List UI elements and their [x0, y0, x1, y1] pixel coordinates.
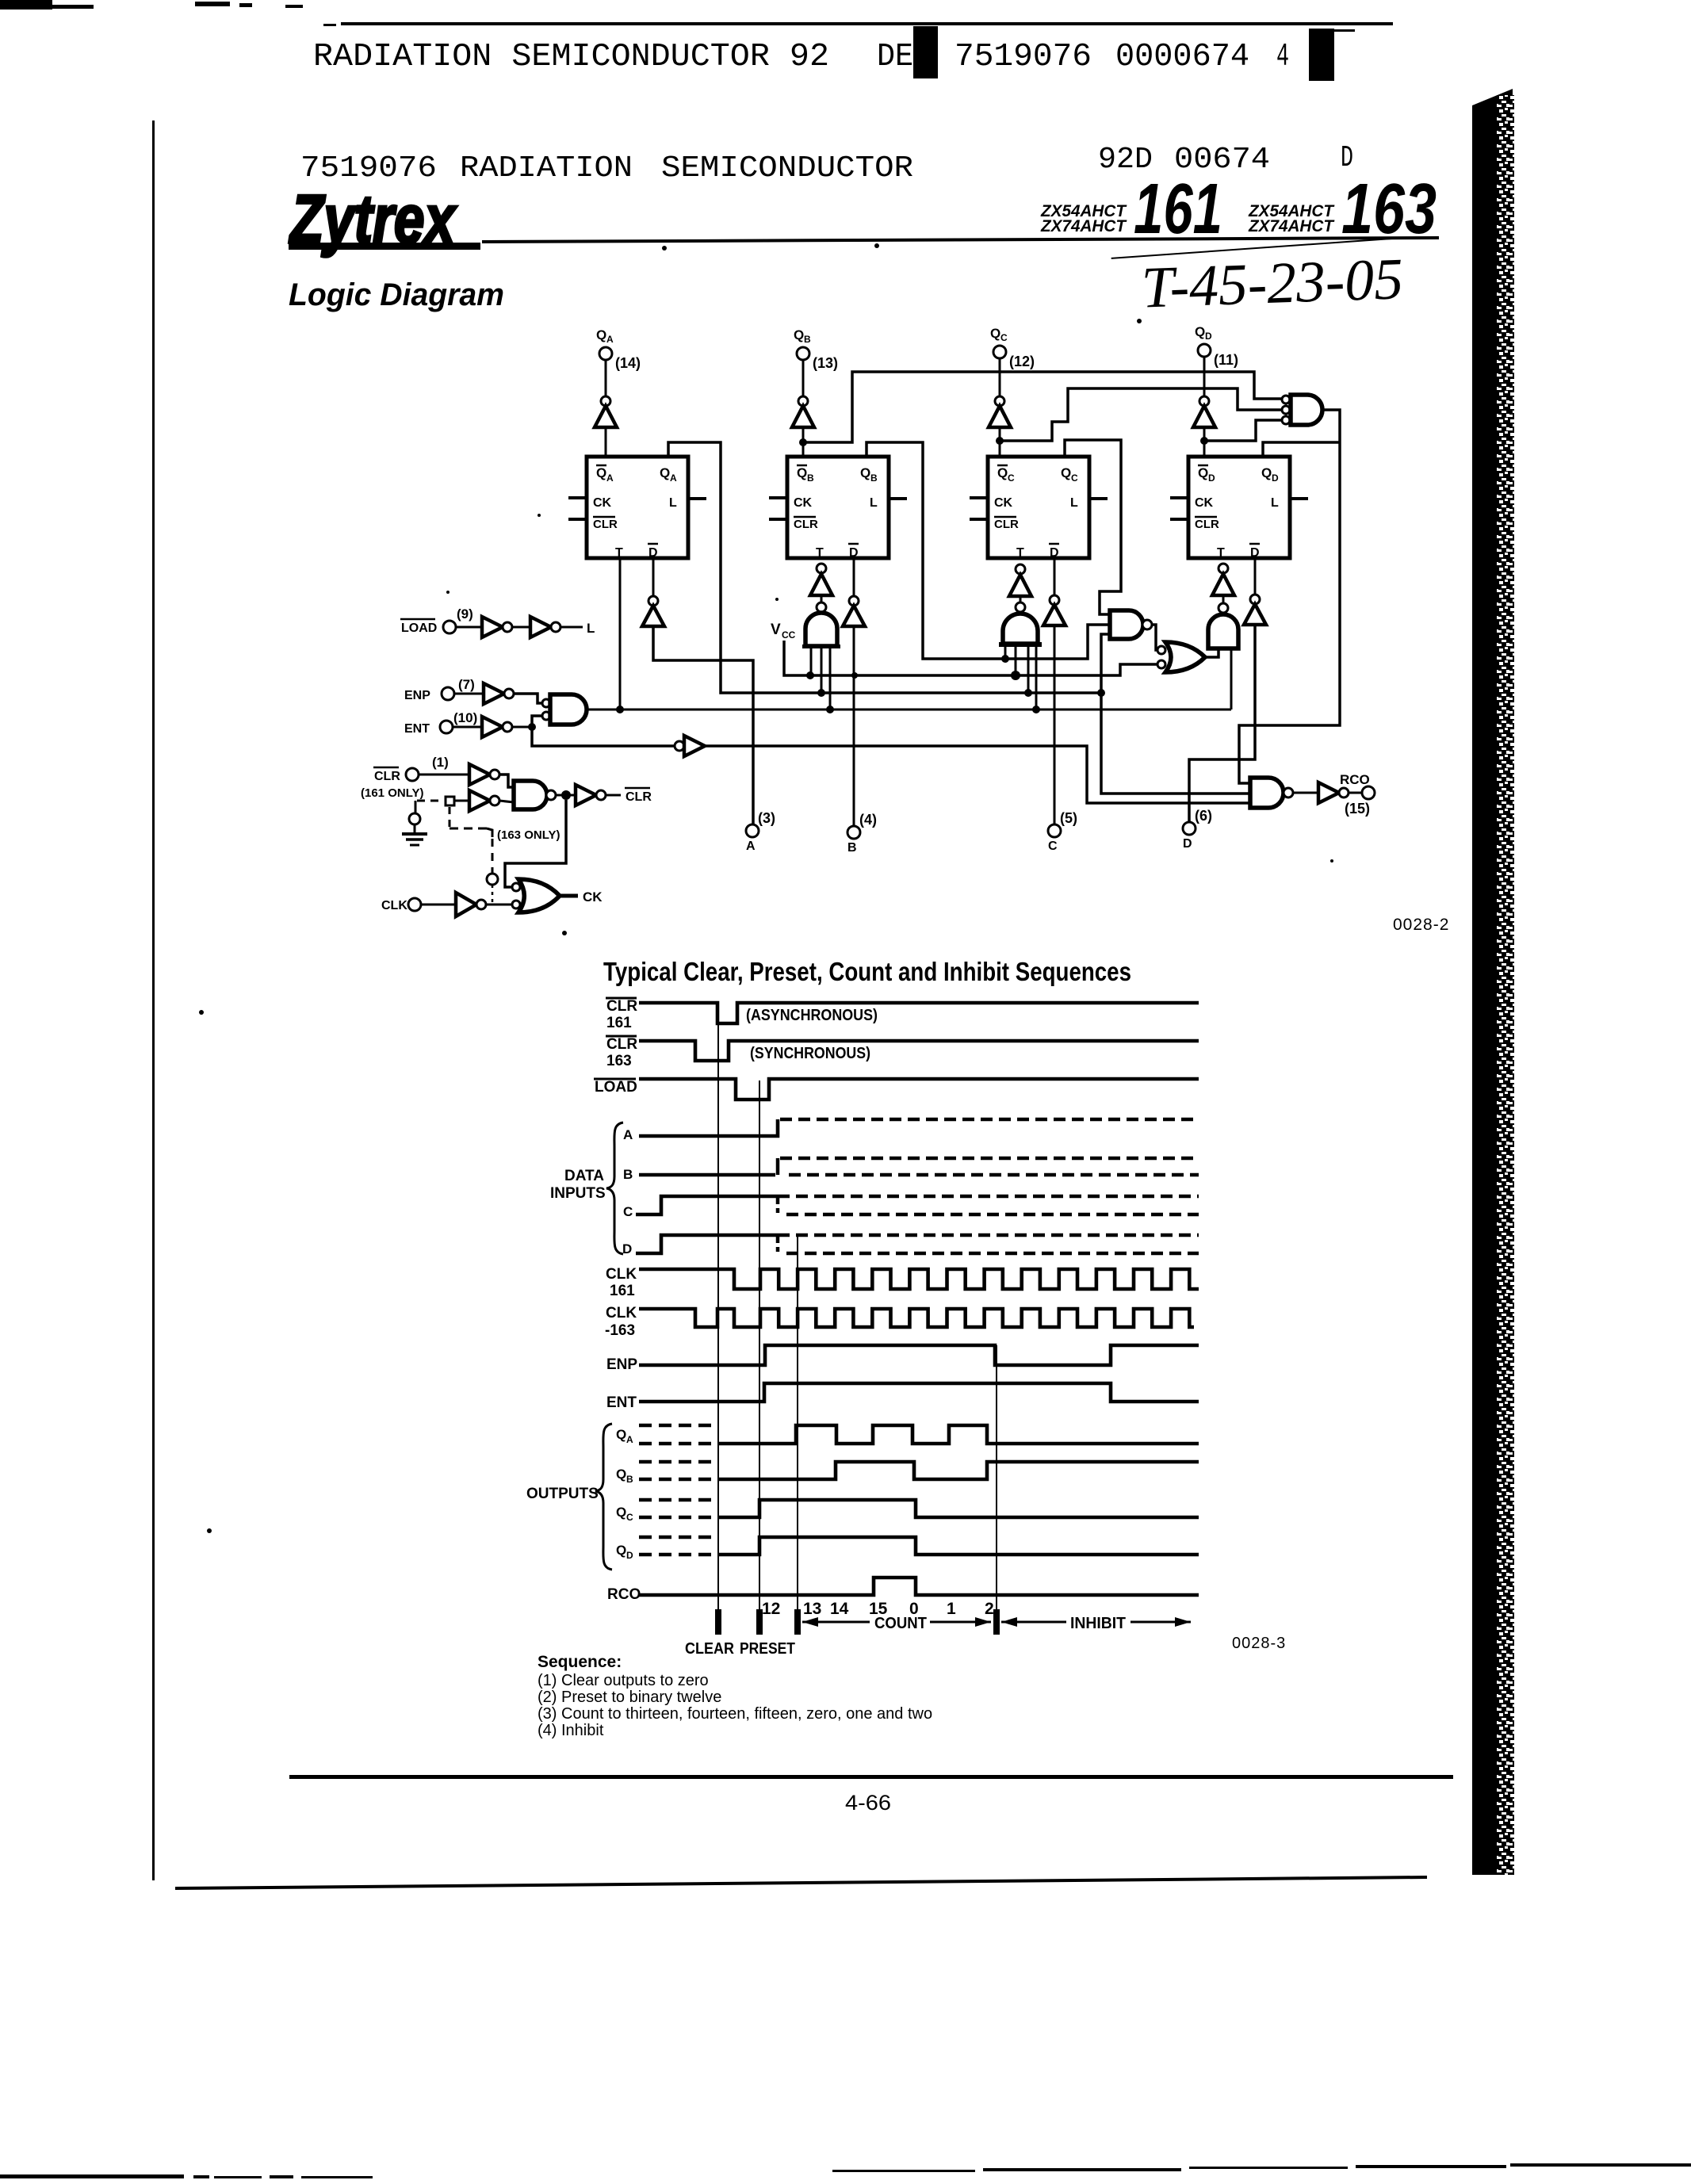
svg-text:T: T [1016, 546, 1024, 560]
AND gate G-C [999, 614, 1042, 710]
guide line clear [717, 1003, 719, 1635]
waveform data B [639, 1158, 1199, 1175]
label QA [616, 1427, 633, 1445]
svg-text:B: B [870, 472, 878, 484]
svg-text:T-45-23-05: T-45-23-05 [1141, 247, 1405, 320]
svg-text:14: 14 [830, 1600, 849, 1618]
flip-flop FFA [587, 457, 688, 560]
svg-text:(SYNCHRONOUS): (SYNCHRONOUS) [750, 1045, 870, 1062]
net label L [560, 621, 595, 636]
svg-text:Logic Diagram: Logic Diagram [289, 277, 504, 312]
brace OUTPUTS [526, 1424, 612, 1570]
svg-text:(161 ONLY): (161 ONLY) [361, 786, 423, 800]
svg-text:RADIATION SEMICONDUCTOR 92: RADIATION SEMICONDUCTOR 92 [313, 39, 829, 75]
svg-text:DATA: DATA [564, 1168, 604, 1184]
svg-text:(14): (14) [615, 355, 641, 371]
svg-text:T: T [615, 546, 623, 560]
svg-text:A: A [606, 472, 614, 484]
waveform ENT [639, 1383, 1199, 1402]
svg-text:C: C [626, 1512, 633, 1523]
svg-text:OUTPUTS: OUTPUTS [526, 1486, 599, 1502]
svg-text:D: D [1183, 837, 1192, 851]
wire AND3 output to RCO NAND [1239, 410, 1340, 783]
svg-text:L: L [587, 621, 595, 636]
handwritten T-45-23-05 [1111, 238, 1404, 322]
svg-text:(1) Clear outputs to zero: (1) Clear outputs to zero [538, 1672, 709, 1689]
node G-C EN [1032, 706, 1040, 713]
input terminal B pin (4) [847, 812, 877, 855]
output terminal RCO pin (15) [1340, 772, 1375, 817]
flip-flop FFB [787, 457, 889, 560]
output terminal QA pin (14) [596, 327, 641, 371]
svg-text:C: C [1048, 840, 1058, 853]
buffer LOAD-2 [512, 617, 560, 637]
svg-text:Q: Q [990, 326, 1000, 341]
node T-enable FFA [616, 706, 624, 713]
flip-flop FFD [1188, 457, 1290, 560]
svg-text:V: V [771, 622, 781, 638]
node G-C QB [1001, 655, 1009, 663]
svg-text:(4): (4) [859, 812, 877, 828]
footer rule [289, 1775, 1453, 1779]
doc number 92D 00674 D [1098, 141, 1353, 177]
svg-text:(13): (13) [813, 355, 838, 371]
NAND gate G7 (RCO) [1250, 778, 1293, 808]
label QB [616, 1467, 633, 1485]
inverter CLR-1 [419, 764, 514, 787]
svg-text:L: L [870, 496, 878, 510]
svg-text:CLR: CLR [626, 790, 652, 804]
AND gate G3 (QB QC QD) [1282, 395, 1322, 425]
input terminal ENP pin (7) [404, 677, 475, 702]
figure number 0028-2 [1393, 916, 1449, 934]
label CLEAR PRESET [685, 1640, 795, 1658]
title 7519076 RADIATION SEMICONDUCTOR [300, 151, 913, 186]
wire FFA T input [619, 558, 622, 710]
svg-text:Sequence:: Sequence: [538, 1653, 622, 1671]
L stub FFB [889, 497, 907, 500]
svg-text:CK: CK [593, 496, 612, 510]
label CLK 161 [606, 1266, 637, 1299]
node QA tap junction [1097, 689, 1105, 697]
svg-text:INPUTS: INPUTS [550, 1185, 606, 1202]
output terminal QC pin (12) [990, 326, 1035, 369]
svg-text:Q: Q [1198, 465, 1208, 480]
svg-text:CLR: CLR [794, 518, 818, 531]
svg-text:A: A [626, 1434, 633, 1445]
annotation ASYNCHRONOUS [746, 1007, 878, 1024]
svg-text:RCO: RCO [1340, 772, 1370, 787]
CLR stub FFA [568, 518, 587, 521]
svg-text:CK: CK [1195, 496, 1214, 510]
label ENT [606, 1394, 637, 1411]
svg-text:13: 13 [803, 1600, 821, 1618]
waveform CLK 161 [639, 1269, 1199, 1289]
svg-text:(6): (6) [1195, 808, 1212, 824]
waveform QD [639, 1537, 1199, 1555]
AND gate G-B [802, 613, 840, 710]
CK stub FFB [769, 496, 787, 499]
label B [623, 1167, 633, 1182]
buffer CLR out [566, 785, 621, 805]
svg-text:1: 1 [947, 1600, 956, 1618]
arrow span INHIBIT [1001, 1615, 1191, 1632]
wire QD feedback to AND3 bottom input [1204, 420, 1282, 441]
node G-B QA [817, 689, 825, 697]
svg-text:B: B [623, 1167, 633, 1182]
wire QC feedback to AND3 middle input [1000, 388, 1282, 441]
timing title [603, 957, 1131, 986]
buffer ENT-2 [675, 736, 1250, 803]
svg-text:7519076: 7519076 [300, 151, 437, 186]
svg-text:CK: CK [994, 496, 1013, 510]
guide line preset [759, 1081, 760, 1635]
svg-text:Q: Q [997, 465, 1008, 480]
svg-text:A: A [623, 1127, 633, 1142]
label 163 ONLY [497, 828, 560, 842]
svg-text:4-66: 4-66 [845, 1791, 891, 1815]
svg-text:(4) Inhibit: (4) Inhibit [538, 1722, 604, 1739]
count numbers row [762, 1600, 994, 1618]
svg-text:161: 161 [610, 1283, 635, 1299]
svg-text:L: L [669, 496, 677, 510]
inverter D-C [1043, 557, 1065, 824]
svg-text:CLR: CLR [994, 518, 1019, 531]
svg-text:(ASYNCHRONOUS): (ASYNCHRONOUS) [746, 1007, 878, 1024]
waveform data D [636, 1235, 1199, 1253]
label RCO [607, 1586, 641, 1603]
svg-text:C: C [1008, 472, 1015, 484]
svg-text:D: D [1208, 472, 1215, 484]
arrow span COUNT [802, 1615, 991, 1632]
header text 7519076 0000674 4 [955, 39, 1289, 75]
letterhead rule [482, 238, 1439, 242]
waveform CLR 161 [639, 1003, 1199, 1023]
svg-text:163: 163 [1341, 170, 1437, 249]
svg-text:CLR: CLR [374, 770, 400, 783]
label A [623, 1127, 633, 1142]
svg-text:D: D [849, 546, 859, 560]
node B data cross [851, 672, 858, 679]
svg-text:LOAD: LOAD [401, 622, 437, 635]
right scan strip [1472, 89, 1514, 1875]
svg-text:Q: Q [616, 1543, 626, 1558]
svg-text:Q: Q [616, 1505, 626, 1520]
svg-text:D: D [1272, 472, 1279, 484]
input terminal ENT pin (10) [404, 710, 477, 736]
svg-text:ZX74AHCT: ZX74AHCT [1040, 217, 1127, 235]
svg-text:CLR: CLR [1195, 518, 1219, 531]
dashed wire 163-only clock gate [450, 807, 492, 873]
buffer ENT [453, 717, 532, 737]
svg-text:Q: Q [794, 327, 804, 342]
CLR stub FFD [1170, 518, 1188, 521]
svg-text:2: 2 [985, 1600, 994, 1618]
svg-text:D: D [626, 1550, 633, 1561]
svg-text:B: B [626, 1474, 633, 1485]
node CLR junction [556, 790, 571, 800]
svg-text:COUNT: COUNT [874, 1615, 927, 1632]
output buffer QC [989, 358, 1011, 457]
inverter CLK [421, 893, 512, 916]
svg-text:(15): (15) [1345, 801, 1370, 817]
header black box 2 [1309, 29, 1355, 81]
inverter CLR-2 [454, 790, 514, 811]
node G-B EN [826, 706, 834, 713]
CK stub FFC [970, 496, 988, 499]
svg-text:CK: CK [794, 496, 813, 510]
buffer LOAD-1 [456, 617, 512, 637]
svg-text:A: A [606, 334, 614, 345]
buffer ENP [454, 683, 542, 704]
L stub FFD [1290, 497, 1308, 500]
AND gate G-D [1208, 614, 1238, 710]
net label CK [560, 889, 603, 905]
svg-text:0000674: 0000674 [1115, 39, 1249, 75]
sequence notes [538, 1653, 932, 1739]
NAND gate G1 (ENP ENT) [542, 694, 587, 725]
marker bar clear [715, 1609, 721, 1635]
node QC junction [996, 437, 1004, 445]
svg-text:B: B [847, 841, 857, 855]
svg-text:ENT: ENT [606, 1394, 637, 1411]
svg-text:0028-3: 0028-3 [1232, 1635, 1286, 1652]
NAND gate G2 (CLR) [514, 781, 556, 809]
wire G4 to G5 [1152, 625, 1157, 650]
svg-text:161: 161 [606, 1015, 632, 1031]
waveform data A [639, 1119, 1199, 1136]
svg-text:7519076: 7519076 [955, 39, 1092, 75]
dashed wire 161-only ground tie [415, 801, 444, 813]
waveform RCO [639, 1578, 1199, 1595]
input terminal CLK [381, 898, 421, 912]
svg-text:ENP: ENP [606, 1356, 637, 1373]
node G-B Vcc [806, 671, 814, 679]
svg-text:Q: Q [860, 465, 870, 480]
marker bar count [794, 1609, 801, 1635]
guide line inhibit [996, 1345, 997, 1635]
ground [402, 824, 427, 845]
inverter T-C [1009, 564, 1031, 612]
label QC [616, 1505, 633, 1523]
OR gate G5 [1157, 642, 1205, 672]
header black box 1 [913, 26, 938, 78]
scan mark top-left [0, 0, 303, 10]
brace DATA INPUTS [550, 1123, 623, 1254]
wire QB output route [867, 442, 1108, 659]
CLR stub FFB [769, 518, 787, 521]
label ENP [606, 1356, 637, 1373]
svg-text:A: A [670, 472, 677, 484]
svg-text:CLK: CLK [381, 899, 407, 912]
label CLR 163 [606, 1036, 637, 1069]
terminal 163 clock tie [487, 874, 498, 902]
label QD [616, 1543, 633, 1561]
svg-text:ENP: ENP [404, 689, 430, 702]
svg-text:Q: Q [616, 1467, 626, 1482]
svg-text:B: B [804, 334, 811, 345]
svg-text:D: D [622, 1241, 632, 1256]
marker bar inhibit [993, 1609, 1000, 1635]
input terminal C pin (5) [1048, 810, 1077, 853]
output terminal QB pin (13) [794, 327, 838, 371]
waveform QA [639, 1425, 1199, 1444]
svg-text:CC: CC [782, 629, 796, 641]
svg-text:Q: Q [660, 465, 670, 480]
svg-text:D: D [648, 546, 658, 560]
inverter D-A [642, 558, 753, 824]
svg-text:B: B [807, 472, 814, 484]
svg-text:SEMICONDUCTOR: SEMICONDUCTOR [661, 151, 913, 186]
waveform QC [639, 1500, 1199, 1517]
header rule [323, 22, 1393, 26]
CLR stub FFC [970, 518, 988, 521]
svg-text:12: 12 [762, 1600, 780, 1618]
terminal ground tie [409, 813, 420, 824]
inverter T-D [1212, 564, 1234, 613]
svg-text:(10): (10) [453, 710, 477, 725]
label D [622, 1241, 632, 1256]
svg-text:A: A [746, 840, 756, 853]
svg-text:INHIBIT: INHIBIT [1070, 1615, 1126, 1632]
svg-text:(9): (9) [457, 606, 473, 622]
wire CLR to CK OR gate [505, 800, 566, 887]
wire QC output route [1065, 440, 1121, 614]
svg-text:(7): (7) [458, 677, 475, 692]
svg-text:D: D [1205, 331, 1212, 342]
svg-text:CK: CK [583, 889, 603, 905]
NAND gate G4 (QA QB QC) [1110, 610, 1152, 639]
wire QA output route [668, 442, 1101, 693]
header text RADIATION SEMICONDUCTOR 92 DE [313, 39, 913, 75]
svg-text:Q: Q [616, 1427, 626, 1442]
svg-text:-163: -163 [605, 1322, 635, 1339]
pad 163 input [446, 797, 454, 805]
figure number 0028-3 [1232, 1635, 1286, 1652]
svg-text:CLK: CLK [606, 1266, 637, 1283]
CK stub FFA [568, 496, 587, 499]
output buffer QA [595, 360, 617, 457]
svg-text:DE: DE [877, 39, 913, 75]
svg-text:C: C [1000, 332, 1008, 343]
svg-text:Q: Q [1061, 465, 1071, 480]
svg-text:(163 ONLY): (163 ONLY) [497, 828, 560, 842]
svg-text:CLEAR: CLEAR [685, 1640, 734, 1658]
flip-flop FFC [988, 457, 1089, 560]
wire QB feedback to AND3 top input [803, 372, 1282, 442]
node QB junction [799, 438, 807, 446]
svg-text:(3) Count to thirteen, fourtee: (3) Count to thirteen, fourteen, fifteen… [538, 1705, 932, 1723]
label CLK 163 [605, 1305, 637, 1339]
net label CLR out [625, 788, 652, 804]
wire T-enable line [587, 709, 1231, 711]
svg-text:PRESET: PRESET [740, 1640, 795, 1658]
svg-text:C: C [1071, 472, 1078, 484]
node ENT junction [528, 723, 536, 731]
input terminal LOAD pin (9) [400, 606, 473, 635]
svg-text:L: L [1271, 496, 1279, 510]
output buffer QD [1193, 357, 1215, 457]
svg-text:L: L [1070, 496, 1078, 510]
waveform ENP [639, 1345, 1199, 1365]
svg-text:4: 4 [1276, 39, 1289, 75]
Zytrex logo [289, 182, 480, 258]
OR gate G6 (CK) [512, 879, 560, 912]
svg-text:ZX74AHCT: ZX74AHCT [1248, 217, 1335, 235]
node G-C Vcc [1011, 671, 1020, 680]
svg-text:T: T [1217, 546, 1225, 560]
scan specks [199, 243, 1333, 1533]
bottom edge scan marks [0, 2163, 1691, 2178]
svg-text:(12): (12) [1009, 354, 1035, 369]
inverter T-B [810, 564, 832, 612]
part number ZX54AHCT/ZX74AHCT 161 [1040, 170, 1222, 249]
svg-text:LOAD: LOAD [595, 1079, 637, 1096]
wire ENT buffered line [532, 727, 675, 746]
part number ZX54AHCT/ZX74AHCT 163 [1248, 170, 1437, 249]
svg-text:CLK: CLK [606, 1305, 637, 1321]
svg-text:CLR: CLR [606, 998, 637, 1015]
label 161 ONLY [361, 786, 423, 800]
buffer RCO [1293, 782, 1362, 803]
svg-text:163: 163 [606, 1053, 632, 1069]
output buffer QB [792, 360, 814, 457]
annotation SYNCHRONOUS [750, 1045, 870, 1062]
svg-text:0028-2: 0028-2 [1393, 916, 1449, 934]
svg-text:(2) Preset to binary twelve: (2) Preset to binary twelve [538, 1689, 721, 1706]
svg-text:CLR: CLR [606, 1036, 637, 1053]
wire QA tap to NAND G4 and RCO NAND [1101, 634, 1250, 794]
inverter D-D [1189, 557, 1266, 822]
wire QD output route [1263, 442, 1340, 457]
svg-text:(1): (1) [432, 755, 449, 770]
CK stub FFD [1170, 496, 1188, 499]
label C [623, 1204, 633, 1219]
svg-text:Typical Clear, Preset, Count a: Typical Clear, Preset, Count and Inhibit… [603, 957, 1131, 986]
svg-text:(5): (5) [1060, 810, 1077, 826]
bottom page border [175, 1877, 1427, 1888]
power Vcc [771, 622, 1159, 675]
guide line count [797, 1237, 798, 1635]
waveform CLR 163 [639, 1041, 1199, 1061]
svg-text:RADIATION: RADIATION [460, 151, 633, 186]
svg-text:Q: Q [797, 465, 807, 480]
label LOAD [594, 1079, 637, 1096]
output terminal QD pin (11) [1195, 324, 1238, 368]
waveform data C [636, 1196, 1199, 1214]
svg-text:T: T [816, 546, 824, 560]
wire ENT to NAND G1 [532, 716, 542, 727]
inverter D-B [843, 558, 865, 826]
label CLR 161 [606, 998, 637, 1031]
node G-C QA [1024, 689, 1032, 697]
waveform CLK 163 [639, 1309, 1194, 1327]
svg-text:Q: Q [596, 327, 606, 342]
input terminal A pin (3) [746, 810, 775, 853]
svg-text:C: C [623, 1204, 633, 1219]
marker bar preset [756, 1609, 763, 1635]
wire G5 output to G-D [1205, 648, 1219, 657]
waveform LOAD [639, 1079, 1199, 1100]
svg-text:Q: Q [1261, 465, 1272, 480]
svg-text:(11): (11) [1214, 352, 1238, 368]
svg-text:ENT: ENT [404, 722, 430, 736]
L stub FFA [688, 497, 706, 500]
svg-text:Q: Q [596, 465, 606, 480]
heading Logic Diagram [289, 277, 504, 312]
left page border [152, 120, 155, 1880]
page number 4-66 [845, 1791, 891, 1815]
